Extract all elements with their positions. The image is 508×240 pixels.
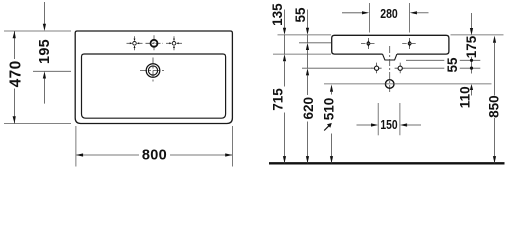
bolt hole right bbox=[395, 63, 406, 74]
dimension 150 text background bbox=[381, 118, 398, 130]
svg-text:715: 715 bbox=[271, 88, 286, 111]
drain fitting trapezoid bbox=[383, 54, 397, 60]
drain inner circle bbox=[148, 66, 157, 75]
dimension column 175/55/110 (dots) bbox=[470, 13, 473, 96]
svg-text:800: 800 bbox=[142, 147, 167, 163]
drain outer circle bbox=[146, 64, 160, 78]
drain crosshair bbox=[140, 58, 166, 84]
dimension 195 line bbox=[43, 2, 46, 104]
extension line drain level (195 lower ref) bbox=[33, 70, 71, 72]
dimension 280: extension lines bbox=[368, 3, 370, 33]
svg-text:850: 850 bbox=[486, 95, 501, 118]
extension line 800 left bbox=[75, 126, 77, 167]
dimension 150: extension lines bbox=[377, 103, 379, 135]
dimension column 135/715 bbox=[283, 10, 286, 164]
dimension 470 line bbox=[13, 31, 16, 124]
basin outer rim (top view) bbox=[75, 31, 232, 124]
dimension 800 line bbox=[76, 153, 233, 156]
svg-text:620: 620 bbox=[301, 97, 316, 120]
adjustable arrow glyph bbox=[324, 123, 332, 131]
basin inner bowl (top view) bbox=[82, 54, 226, 118]
rim extension line right bbox=[451, 34, 504, 36]
mounting cross right on slab bbox=[402, 38, 417, 49]
rim extension line left bbox=[278, 34, 332, 36]
svg-text:150: 150 bbox=[380, 118, 397, 132]
drain bottom level extension segments bbox=[406, 59, 444, 61]
extension line bottom (470 lower ref) bbox=[4, 123, 71, 125]
mounting-hole level extension (left) bbox=[299, 42, 331, 44]
svg-text:280: 280 bbox=[380, 6, 398, 21]
extension line top (470 / 195 upper ref) bbox=[4, 30, 71, 32]
bolt level extension segments bbox=[302, 67, 373, 69]
slab bottom extension (left) bbox=[273, 53, 331, 55]
mounting cross left on slab bbox=[361, 38, 376, 49]
svg-text:470: 470 bbox=[7, 60, 24, 87]
floor line bbox=[269, 162, 505, 164]
svg-text:110: 110 bbox=[458, 86, 473, 108]
dimension 280 line bbox=[342, 11, 429, 14]
trap level extension bbox=[324, 83, 492, 85]
basin slab outline (front view) bbox=[332, 35, 449, 54]
svg-text:55: 55 bbox=[445, 57, 460, 73]
dimension column 55/620 bbox=[306, 10, 309, 164]
svg-text:55: 55 bbox=[293, 7, 308, 23]
dimension 150 line bbox=[357, 123, 422, 126]
faucet hole center (bold circle) bbox=[146, 35, 163, 51]
center line bbox=[389, 46, 391, 93]
bolt hole left bbox=[371, 63, 382, 74]
extension line 800 right bbox=[231, 126, 233, 167]
dimension column 510 bbox=[330, 85, 333, 164]
dimension column 850 bbox=[493, 36, 496, 164]
svg-text:510: 510 bbox=[322, 98, 337, 121]
svg-text:135: 135 bbox=[270, 3, 285, 26]
faucet hole left marker bbox=[127, 36, 143, 50]
svg-text:195: 195 bbox=[37, 39, 53, 64]
faucet hole right marker bbox=[166, 36, 182, 50]
trap outlet circle bbox=[385, 80, 394, 89]
svg-text:175: 175 bbox=[464, 35, 479, 58]
